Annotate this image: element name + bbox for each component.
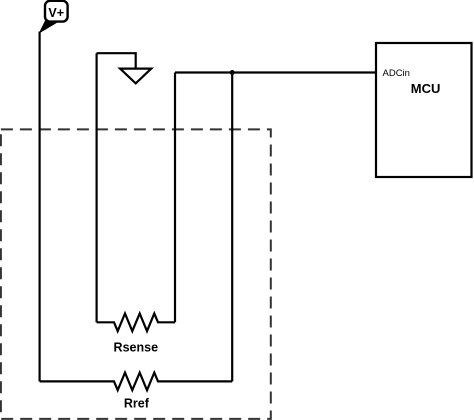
wire Rsense left to ground [95,53,97,322]
wire Rsense right to ADC wire [174,73,176,323]
resistor Rsense [97,314,175,355]
dashed enclosure box [1,129,271,419]
wire V+ to Rref left [38,32,40,382]
svg-text:MCU: MCU [411,81,441,96]
wire to ground stub [97,53,136,68]
MCU box U1 [376,43,472,177]
junction node dot [230,70,235,75]
resistor Rref [40,373,233,411]
svg-text:Rsense: Rsense [114,341,159,355]
ground symbol [120,69,151,84]
svg-text:V+: V+ [48,6,64,20]
svg-text:Rref: Rref [124,397,150,411]
svg-text:ADCin: ADCin [383,68,410,79]
wire horizontal to MCU ADCin [175,71,376,73]
wire Rref right to ADC node [231,73,233,382]
power flag V+ [39,1,68,34]
